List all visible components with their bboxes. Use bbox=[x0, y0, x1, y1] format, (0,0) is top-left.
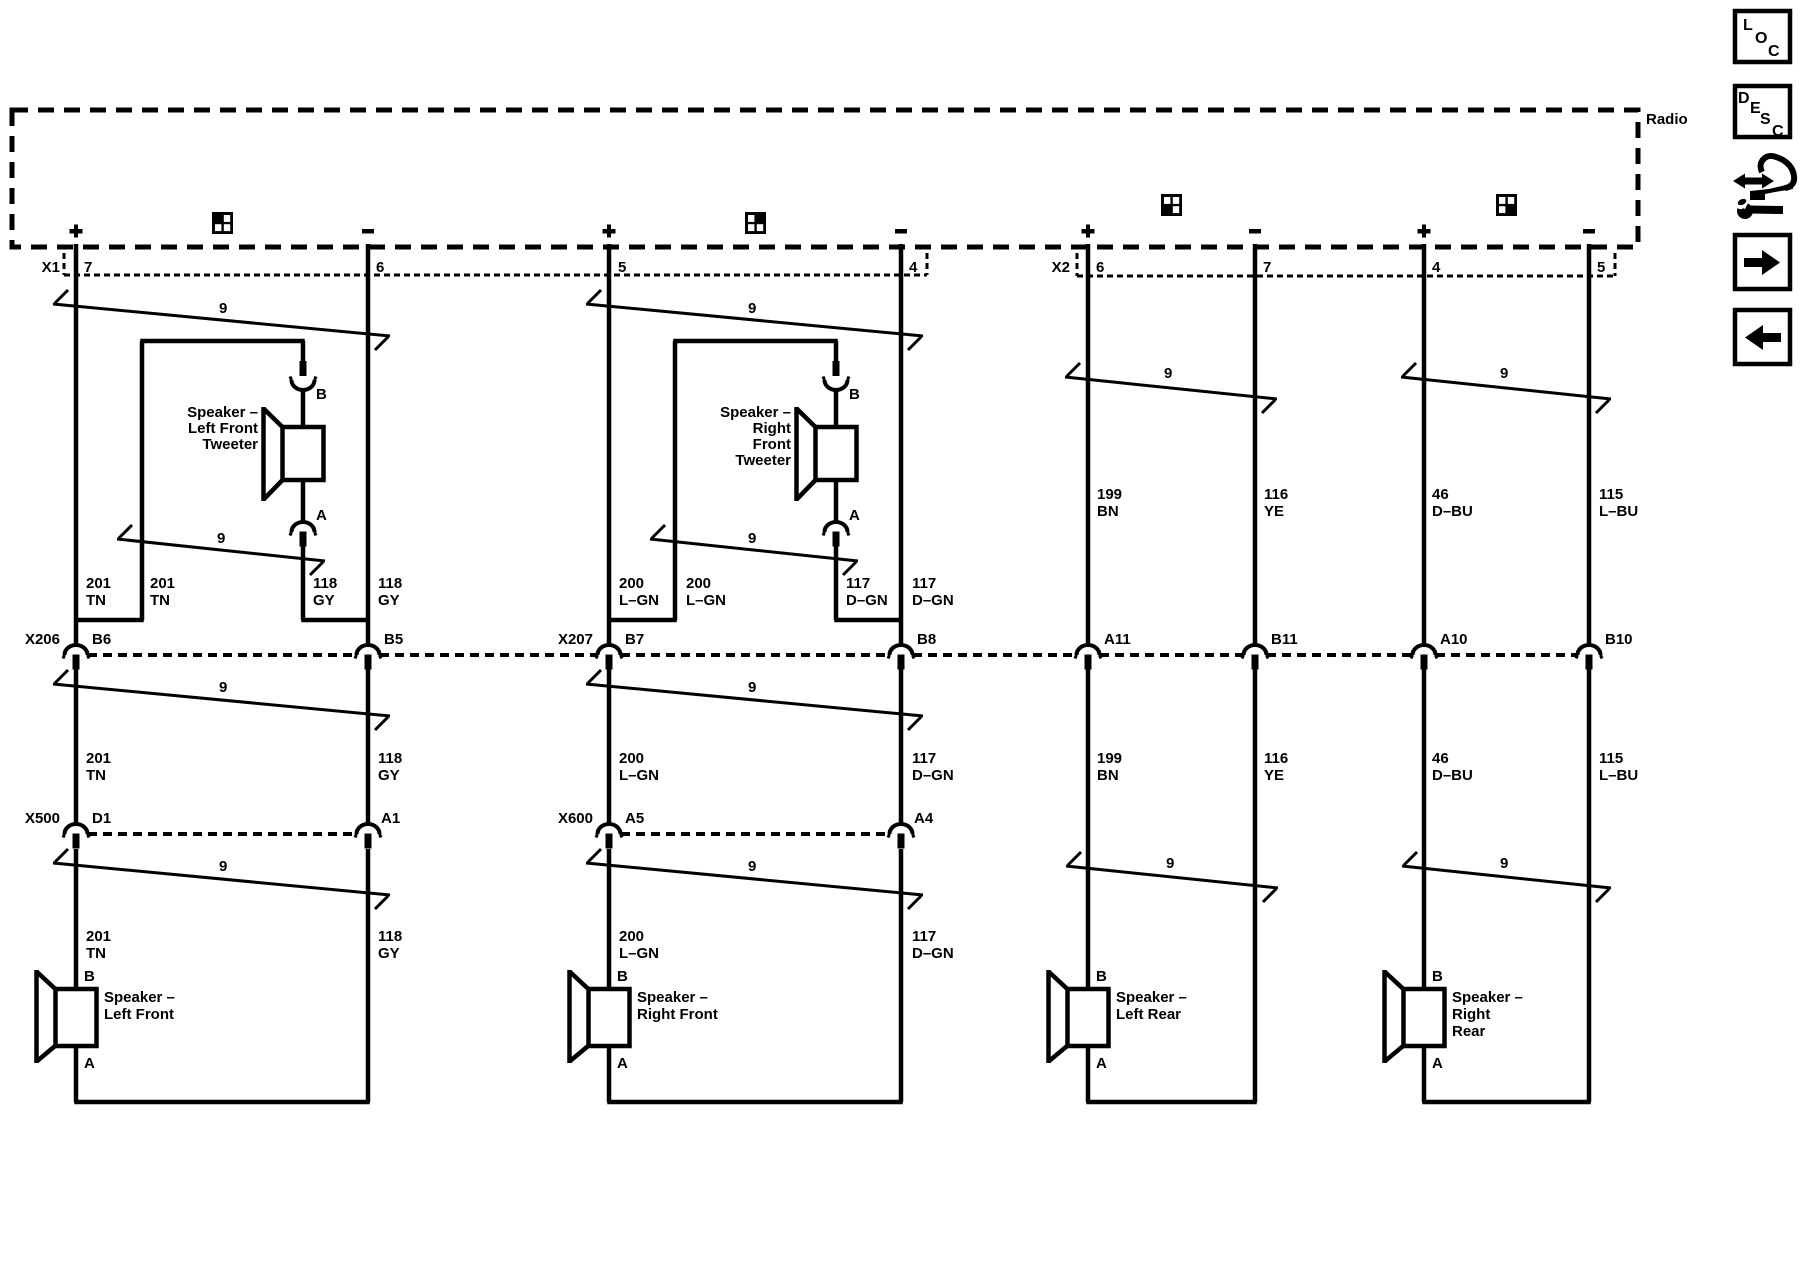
svg-text:X1: X1 bbox=[42, 259, 60, 276]
svg-text:A: A bbox=[617, 1055, 628, 1072]
svg-text:5: 5 bbox=[1597, 259, 1605, 276]
svg-text:7: 7 bbox=[1263, 259, 1271, 276]
svg-text:200: 200 bbox=[619, 928, 644, 945]
svg-text:200: 200 bbox=[686, 575, 711, 592]
svg-text:4: 4 bbox=[1432, 259, 1441, 276]
svg-text:TN: TN bbox=[86, 767, 106, 784]
svg-text:116: 116 bbox=[1264, 750, 1288, 767]
svg-text:118: 118 bbox=[378, 750, 402, 767]
svg-text:B8: B8 bbox=[917, 631, 936, 648]
svg-text:118: 118 bbox=[378, 928, 402, 945]
svg-text:Speaker –: Speaker – bbox=[637, 989, 708, 1006]
svg-text:9: 9 bbox=[1164, 365, 1172, 382]
svg-text:4: 4 bbox=[909, 259, 918, 276]
svg-text:A: A bbox=[316, 507, 327, 524]
svg-text:A10: A10 bbox=[1440, 631, 1468, 648]
svg-text:D–GN: D–GN bbox=[912, 945, 954, 962]
svg-text:B7: B7 bbox=[625, 631, 644, 648]
svg-text:Speaker –: Speaker – bbox=[187, 404, 258, 421]
svg-text:117: 117 bbox=[912, 928, 936, 945]
svg-text:117: 117 bbox=[912, 750, 936, 767]
svg-text:C: C bbox=[1772, 123, 1784, 140]
svg-text:9: 9 bbox=[219, 679, 227, 696]
svg-text:L–GN: L–GN bbox=[619, 592, 659, 609]
svg-text:Speaker –: Speaker – bbox=[1452, 989, 1523, 1006]
svg-text:B: B bbox=[1432, 968, 1443, 985]
svg-text:B5: B5 bbox=[384, 631, 403, 648]
svg-text:A: A bbox=[849, 507, 860, 524]
svg-text:118: 118 bbox=[378, 575, 402, 592]
svg-text:A: A bbox=[1432, 1055, 1443, 1072]
svg-text:9: 9 bbox=[1166, 855, 1174, 872]
svg-text:L–GN: L–GN bbox=[686, 592, 726, 609]
svg-text:Left Front: Left Front bbox=[188, 420, 258, 437]
svg-text:6: 6 bbox=[1096, 259, 1104, 276]
svg-text:117: 117 bbox=[846, 575, 870, 592]
svg-text:X206: X206 bbox=[25, 631, 60, 648]
svg-text:Front: Front bbox=[753, 436, 791, 453]
svg-text:Right Front: Right Front bbox=[637, 1006, 718, 1023]
svg-text:TN: TN bbox=[86, 945, 106, 962]
svg-text:Speaker –: Speaker – bbox=[1116, 989, 1187, 1006]
svg-text:6: 6 bbox=[376, 259, 384, 276]
svg-text:X600: X600 bbox=[558, 810, 593, 827]
svg-text:D–GN: D–GN bbox=[912, 592, 954, 609]
svg-text:199: 199 bbox=[1097, 750, 1122, 767]
svg-text:Speaker –: Speaker – bbox=[104, 989, 175, 1006]
svg-text:B: B bbox=[617, 968, 628, 985]
svg-text:A4: A4 bbox=[914, 810, 934, 827]
svg-text:200: 200 bbox=[619, 750, 644, 767]
svg-text:Speaker –: Speaker – bbox=[720, 404, 791, 421]
svg-text:D–GN: D–GN bbox=[846, 592, 888, 609]
svg-text:D–BU: D–BU bbox=[1432, 503, 1473, 520]
svg-text:9: 9 bbox=[1500, 365, 1508, 382]
svg-text:200: 200 bbox=[619, 575, 644, 592]
svg-text:Radio: Radio bbox=[1646, 111, 1688, 128]
svg-text:9: 9 bbox=[748, 530, 756, 547]
svg-text:201: 201 bbox=[86, 575, 111, 592]
svg-text:B: B bbox=[84, 968, 95, 985]
svg-text:GY: GY bbox=[313, 592, 335, 609]
svg-text:D–BU: D–BU bbox=[1432, 767, 1473, 784]
svg-text:A1: A1 bbox=[381, 810, 400, 827]
svg-text:118: 118 bbox=[313, 575, 337, 592]
svg-text:A: A bbox=[1096, 1055, 1107, 1072]
svg-text:117: 117 bbox=[912, 575, 936, 592]
svg-text:9: 9 bbox=[1500, 855, 1508, 872]
svg-text:9: 9 bbox=[219, 300, 227, 317]
svg-text:BN: BN bbox=[1097, 503, 1119, 520]
svg-text:GY: GY bbox=[378, 592, 400, 609]
svg-text:9: 9 bbox=[748, 679, 756, 696]
svg-text:X207: X207 bbox=[558, 631, 593, 648]
svg-text:199: 199 bbox=[1097, 486, 1122, 503]
svg-text:201: 201 bbox=[150, 575, 175, 592]
svg-text:Tweeter: Tweeter bbox=[202, 436, 258, 453]
svg-text:A5: A5 bbox=[625, 810, 644, 827]
svg-text:L–GN: L–GN bbox=[619, 767, 659, 784]
svg-text:L–GN: L–GN bbox=[619, 945, 659, 962]
svg-text:Left Front: Left Front bbox=[104, 1006, 174, 1023]
svg-text:Left Rear: Left Rear bbox=[1116, 1006, 1181, 1023]
svg-text:46: 46 bbox=[1432, 486, 1449, 503]
svg-text:9: 9 bbox=[217, 530, 225, 547]
svg-text:Rear: Rear bbox=[1452, 1023, 1486, 1040]
svg-text:7: 7 bbox=[84, 259, 92, 276]
svg-text:YE: YE bbox=[1264, 767, 1284, 784]
svg-text:B: B bbox=[849, 386, 860, 403]
svg-text:L: L bbox=[1743, 17, 1753, 34]
svg-text:D: D bbox=[1738, 90, 1750, 107]
svg-text:D1: D1 bbox=[92, 810, 111, 827]
svg-text:5: 5 bbox=[618, 259, 626, 276]
svg-text:A11: A11 bbox=[1104, 631, 1131, 648]
svg-text:TN: TN bbox=[150, 592, 170, 609]
svg-text:D–GN: D–GN bbox=[912, 767, 954, 784]
svg-text:A: A bbox=[84, 1055, 95, 1072]
svg-text:201: 201 bbox=[86, 750, 111, 767]
svg-text:YE: YE bbox=[1264, 503, 1284, 520]
svg-text:B: B bbox=[1096, 968, 1107, 985]
svg-text:116: 116 bbox=[1264, 486, 1288, 503]
svg-text:TN: TN bbox=[86, 592, 106, 609]
svg-text:O: O bbox=[1755, 30, 1767, 47]
svg-text:GY: GY bbox=[378, 945, 400, 962]
svg-text:C: C bbox=[1768, 43, 1780, 60]
svg-text:B6: B6 bbox=[92, 631, 111, 648]
svg-text:B: B bbox=[316, 386, 327, 403]
svg-text:Right: Right bbox=[1452, 1006, 1490, 1023]
svg-text:115: 115 bbox=[1599, 750, 1623, 767]
svg-text:X2: X2 bbox=[1052, 259, 1070, 276]
svg-text:9: 9 bbox=[219, 858, 227, 875]
svg-text:9: 9 bbox=[748, 858, 756, 875]
svg-text:BN: BN bbox=[1097, 767, 1119, 784]
svg-text:B11: B11 bbox=[1271, 631, 1298, 648]
svg-text:B10: B10 bbox=[1605, 631, 1633, 648]
svg-text:201: 201 bbox=[86, 928, 111, 945]
svg-text:X500: X500 bbox=[25, 810, 60, 827]
svg-text:L–BU: L–BU bbox=[1599, 767, 1638, 784]
svg-text:46: 46 bbox=[1432, 750, 1449, 767]
svg-text:9: 9 bbox=[748, 300, 756, 317]
svg-text:Right: Right bbox=[753, 420, 791, 437]
svg-text:GY: GY bbox=[378, 767, 400, 784]
svg-text:L–BU: L–BU bbox=[1599, 503, 1638, 520]
svg-text:115: 115 bbox=[1599, 486, 1623, 503]
svg-text:Tweeter: Tweeter bbox=[735, 452, 791, 469]
svg-text:S: S bbox=[1760, 111, 1771, 128]
